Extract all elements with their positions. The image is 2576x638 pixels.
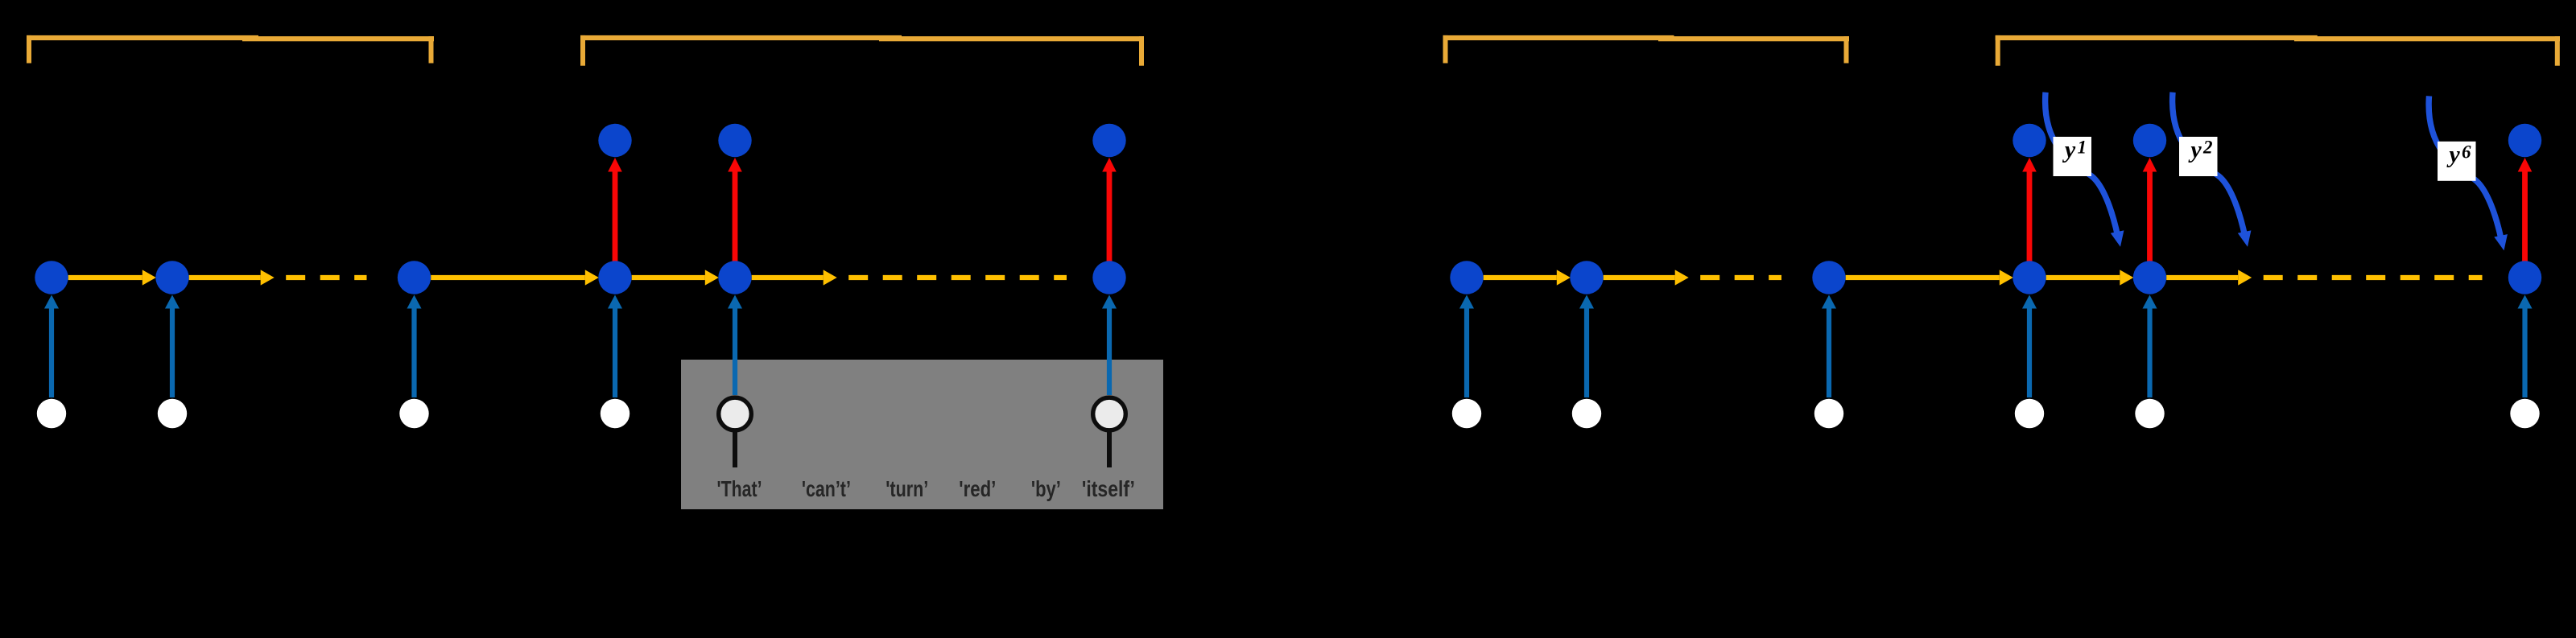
svg-text:y: y [2446, 141, 2460, 167]
hidden state node h2 (left) [155, 261, 188, 294]
label box y6 [2438, 141, 2476, 181]
blue input arrow x2 (left) [165, 295, 180, 398]
output node o2 (right) [2133, 124, 2166, 157]
hidden state node h5 (right) [2133, 261, 2166, 294]
yellow dashed arrow h2-h3 (left) [189, 270, 367, 285]
blue input arrow x3 (right) [1822, 295, 1836, 398]
hidden state node h3 (left) [398, 261, 431, 294]
yellow arrow h3-h4 (right) [1846, 270, 2013, 285]
hidden state node h6 (right) [2508, 261, 2541, 294]
hidden state node h1 (left) [35, 261, 68, 294]
hidden state node h4 (right) [2013, 261, 2046, 294]
svg-text:6: 6 [2462, 142, 2471, 162]
yellow dashed arrow h2-h3 (right) [1604, 270, 1781, 285]
bracket predict-span (left diagram) [580, 35, 1144, 66]
hidden state node h5 (left) [718, 261, 751, 294]
svg-text:'can’t’: 'can’t’ [802, 476, 851, 501]
red output arrow t6 (left) [1102, 158, 1117, 261]
label box y1 [2054, 137, 2092, 177]
curved arrow sample y6 [2429, 96, 2508, 250]
hidden state node h4 (left) [598, 261, 631, 294]
red output arrow t5 (left) [728, 158, 742, 261]
input node x4 (right) [2015, 399, 2044, 428]
red output arrow t2 (right) [2143, 158, 2157, 261]
red output arrow t6 (right) [2518, 158, 2533, 261]
yellow arrow h4-h5 (left) [632, 270, 719, 285]
outlined word node That (left) [719, 397, 752, 467]
svg-text:y: y [2062, 137, 2076, 163]
input node x6 (right) [2510, 399, 2539, 428]
hidden state node h2 (right) [1570, 261, 1603, 294]
gray sentence box [681, 360, 1163, 509]
svg-text:2: 2 [2202, 138, 2213, 158]
svg-text:'That’: 'That’ [717, 476, 762, 501]
output node o6 (left) [1092, 124, 1125, 157]
curved arrow sample y2 [2173, 93, 2252, 247]
input node x5 (right) [2135, 399, 2164, 428]
input node x1 (right) [1452, 399, 1481, 428]
blue input arrow x5 (right) [2143, 295, 2157, 398]
yellow arrow h1-h2 (left) [68, 270, 156, 285]
svg-text:'red’: 'red’ [959, 476, 996, 501]
bracket left-context (left diagram) [27, 35, 434, 64]
input node x2 (right) [1572, 399, 1601, 428]
svg-text:'turn’: 'turn’ [885, 476, 928, 501]
input node x4 (left) [601, 399, 630, 428]
blue input arrow x6 (right) [2518, 295, 2533, 398]
red output arrow t1 (right) [2022, 158, 2037, 261]
svg-text:y: y [2188, 137, 2202, 163]
hidden state node h1 (right) [1450, 261, 1483, 294]
blue input arrow x5 (left, from word That) [728, 295, 742, 396]
output node o4 (left) [598, 124, 631, 157]
hidden state node h3 (right) [1812, 261, 1845, 294]
output node o6 (right) [2508, 124, 2541, 157]
input node x2 (left) [158, 399, 187, 428]
svg-text:'itself’: 'itself’ [1082, 476, 1135, 501]
yellow arrow h4-h5 (right) [2046, 270, 2134, 285]
blue input arrow x1 (left) [44, 295, 59, 398]
bracket predict-span (right diagram) [1996, 35, 2560, 66]
hidden state node h6 (left) [1092, 261, 1125, 294]
blue input arrow x6 (left, from word itself) [1102, 295, 1117, 396]
output node o1 (right) [2013, 124, 2046, 157]
output node o5 (left) [718, 124, 751, 157]
blue input arrow x4 (right) [2022, 295, 2037, 398]
svg-text:'by’: 'by’ [1031, 476, 1061, 501]
label box y2 [2179, 137, 2218, 177]
yellow arrow h1-h2 (right) [1484, 270, 1571, 285]
blue input arrow x3 (left) [407, 295, 422, 398]
curved arrow sample y1 [2046, 93, 2124, 247]
outlined word node itself (left) [1093, 397, 1126, 467]
blue input arrow x2 (right) [1579, 295, 1594, 398]
bracket left-context (right diagram) [1443, 35, 1850, 64]
svg-text:1: 1 [2078, 138, 2087, 158]
input node x3 (right) [1814, 399, 1843, 428]
blue input arrow x4 (left) [608, 295, 622, 398]
input node x3 (left) [399, 399, 428, 428]
yellow dashed arrow h5-h6 (left) [752, 270, 1067, 285]
red output arrow t4 (left) [608, 158, 622, 261]
blue input arrow x1 (right) [1459, 295, 1474, 398]
yellow arrow h3-h4 (left) [431, 270, 599, 285]
input node x1 (left) [37, 399, 66, 428]
yellow dashed arrow h5-h6 (right) [2166, 270, 2482, 285]
